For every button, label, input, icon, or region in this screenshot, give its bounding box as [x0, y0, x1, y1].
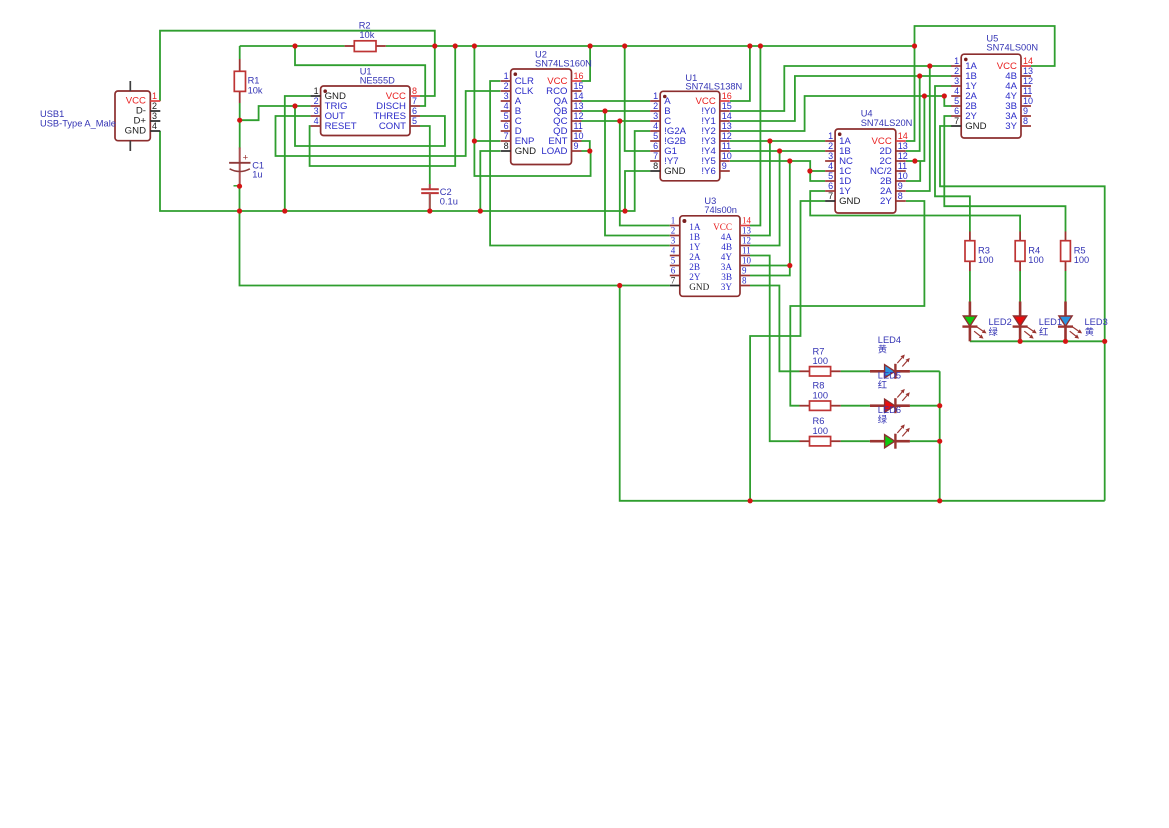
wire R7 to LED4	[841, 370, 870, 372]
svg-text:NE555D: NE555D	[360, 75, 395, 85]
svg-text:5: 5	[828, 171, 833, 181]
svg-text:1u: 1u	[252, 170, 262, 180]
svg-text:1: 1	[504, 71, 509, 81]
svg-text:3A: 3A	[721, 262, 733, 272]
svg-text:1B: 1B	[689, 232, 700, 242]
svg-text:GND: GND	[689, 282, 709, 292]
wire R3 to LED2	[969, 271, 971, 302]
svg-text:1: 1	[954, 56, 959, 66]
wire VCC: USB pin1 to top rail	[160, 31, 435, 101]
wire VCC rail left of R2	[240, 45, 345, 47]
svg-text:10: 10	[742, 256, 752, 266]
svg-text:3: 3	[828, 151, 833, 161]
wire VCC rail right of R2	[386, 45, 915, 47]
IC U1 SN74LS138N decoder	[650, 73, 742, 181]
svg-text:2: 2	[671, 226, 676, 236]
wire U4 2Y pin8 to R8	[790, 201, 924, 406]
svg-text:SN74LS160N: SN74LS160N	[535, 58, 592, 68]
wire CONT: 555 pin5 to C2	[420, 126, 430, 184]
wire !Y5: 138 pin10 to U4 1C/1D	[730, 161, 825, 181]
IC U3 74ls00n quad NAND	[670, 196, 752, 296]
IC U4 SN74LS20N dual NAND	[825, 109, 912, 214]
svg-text:2B: 2B	[689, 262, 700, 272]
svg-text:7: 7	[504, 131, 509, 141]
svg-text:6: 6	[671, 266, 676, 276]
svg-text:14: 14	[898, 131, 908, 141]
svg-text:LOAD: LOAD	[541, 146, 567, 157]
wire !Y1 branch to U4 2D pin13	[906, 76, 920, 151]
wire !Y2 branch to U4 2C pin12	[906, 96, 925, 161]
svg-text:1: 1	[828, 131, 833, 141]
svg-text:1: 1	[314, 86, 319, 96]
wire !Y5 spur to U4 1C pin4	[810, 170, 825, 172]
svg-text:R7: R7	[813, 346, 825, 356]
wire DISCH net: rail to 555 pin7	[295, 46, 425, 106]
svg-text:6: 6	[828, 181, 833, 191]
svg-text:4: 4	[152, 121, 157, 131]
svg-text:11: 11	[742, 246, 751, 256]
svg-text:红: 红	[878, 379, 887, 390]
svg-text:2: 2	[504, 81, 509, 91]
wire !Y4 branch to U3 4B pin12	[750, 151, 780, 246]
svg-text:1A: 1A	[689, 222, 701, 232]
wire U5 2Y pin6 to R5	[944, 116, 1065, 232]
svg-text:4B: 4B	[721, 242, 732, 252]
wire node to C1 top	[239, 120, 241, 148]
svg-text:3: 3	[314, 106, 319, 116]
wire !Y5 branch to U3 3A/3B	[750, 161, 790, 276]
svg-text:8: 8	[653, 161, 658, 171]
svg-text:绿: 绿	[989, 326, 999, 337]
svg-text:8: 8	[412, 86, 417, 96]
svg-text:1Y: 1Y	[689, 242, 701, 252]
svg-text:2Y: 2Y	[689, 272, 701, 282]
svg-text:9: 9	[898, 181, 903, 191]
svg-text:3: 3	[653, 111, 658, 121]
svg-text:8: 8	[504, 141, 509, 151]
svg-text:R6: R6	[813, 416, 825, 426]
wire R4 to LED1	[1019, 271, 1021, 302]
wire LED4 cathode to collector	[910, 370, 940, 372]
svg-text:LED4: LED4	[878, 335, 901, 345]
wire GND: 138 pin8 to rail	[625, 171, 650, 211]
svg-text:2: 2	[152, 101, 157, 111]
wire QC: U2 pin12 to 138 C	[582, 120, 651, 122]
svg-text:8: 8	[1023, 116, 1028, 126]
capacitor C2 0.1u	[421, 184, 458, 211]
svg-text:5: 5	[412, 116, 417, 126]
wire GND: middle LED cathode collector	[939, 371, 941, 501]
svg-text:LED5: LED5	[878, 370, 901, 380]
wire !Y0 branch to U4 2A pin9	[906, 66, 930, 191]
svg-text:4A: 4A	[721, 232, 733, 242]
LED LED5 red	[870, 389, 910, 413]
resistor R8 100	[800, 381, 841, 411]
svg-text:11: 11	[574, 121, 583, 131]
svg-text:3: 3	[152, 111, 157, 121]
svg-text:8: 8	[898, 191, 903, 201]
svg-text:11: 11	[722, 141, 731, 151]
svg-text:7: 7	[828, 191, 833, 201]
svg-text:2: 2	[954, 66, 959, 76]
svg-text:14: 14	[742, 216, 752, 226]
svg-text:14: 14	[1023, 56, 1033, 66]
svg-text:R4: R4	[1028, 246, 1040, 256]
wire VCC loop to U5 pin14	[915, 26, 1055, 66]
svg-text:黄: 黄	[1085, 326, 1094, 337]
svg-text:12: 12	[898, 151, 908, 161]
svg-text:4: 4	[314, 116, 319, 126]
svg-text:2: 2	[314, 96, 319, 106]
resistor R6 100	[800, 416, 841, 446]
svg-text:10: 10	[722, 151, 732, 161]
wire R6 to LED6	[841, 440, 870, 442]
svg-text:GND: GND	[515, 146, 536, 157]
LED LED1 red	[1013, 302, 1037, 342]
svg-text:12: 12	[742, 236, 751, 246]
LED LED6 green	[870, 424, 910, 448]
wire OUT: 555 pin3 to U2 CLK pin2	[276, 91, 501, 156]
svg-text:SN74LS138N: SN74LS138N	[685, 82, 742, 92]
svg-text:LED1: LED1	[1039, 317, 1062, 327]
svg-text:5: 5	[504, 111, 509, 121]
svg-text:13: 13	[1023, 66, 1033, 76]
svg-text:3: 3	[671, 236, 676, 246]
wire U2 ENT pin10 to LOAD node	[582, 141, 590, 151]
wire QB: U2 pin13 to 138 B	[582, 110, 651, 112]
svg-text:14: 14	[574, 91, 584, 101]
svg-text:100: 100	[1028, 255, 1044, 265]
svg-text:2A: 2A	[689, 252, 701, 262]
svg-text:13: 13	[574, 101, 584, 111]
wire GND: 555 pin1 to rail	[285, 96, 311, 211]
wire U3 4Y pin11 to R6	[750, 256, 800, 442]
LED LED2 green	[962, 302, 986, 342]
wire GND: U4 pin7 to bottom rail	[750, 201, 825, 501]
svg-text:4: 4	[504, 101, 509, 111]
wire VCC to 74LS138 G1 pin6	[625, 46, 651, 151]
IC U5 SN74LS00N quad NAND	[951, 33, 1038, 138]
svg-text:100: 100	[813, 356, 829, 366]
svg-text:R8: R8	[813, 381, 825, 391]
svg-text:7: 7	[954, 116, 959, 126]
svg-text:100: 100	[813, 390, 829, 400]
wire LED5 cathode to collector	[910, 405, 940, 407]
svg-text:2: 2	[828, 141, 833, 151]
connector USB1 USB-Type A_Male	[40, 81, 160, 151]
wire GND: C1 minus to rail	[239, 186, 241, 211]
svg-text:13: 13	[742, 226, 752, 236]
svg-text:LED6: LED6	[878, 405, 901, 415]
wire VCC to U4 pin14	[906, 46, 915, 141]
resistor R3 100	[965, 232, 994, 272]
svg-text:11: 11	[1023, 86, 1032, 96]
IC U2 SN74LS160N counter	[501, 50, 592, 165]
wire VCC to 555 RESET pin4	[310, 46, 456, 166]
LED LED3 blue	[1058, 302, 1082, 342]
svg-text:VCC: VCC	[713, 222, 732, 232]
svg-text:GND: GND	[664, 166, 685, 177]
svg-text:R1: R1	[248, 76, 260, 86]
svg-text:绿: 绿	[878, 413, 888, 424]
svg-text:红: 红	[1039, 326, 1048, 337]
capacitor C1 1u polarized	[229, 148, 264, 187]
wire QA: U2 pin14 to 138 A	[582, 100, 651, 102]
svg-text:10: 10	[1023, 96, 1033, 106]
svg-text:8: 8	[742, 276, 747, 286]
wire !Y3 branch to U3 4A pin13	[750, 141, 770, 236]
LED LED4 blue	[870, 355, 910, 379]
svg-text:3B: 3B	[721, 272, 732, 282]
resistor R2 10k	[345, 21, 386, 52]
svg-text:16: 16	[574, 71, 584, 81]
svg-text:4: 4	[954, 86, 959, 96]
svg-text:1: 1	[671, 216, 676, 226]
svg-text:100: 100	[1074, 255, 1090, 265]
wire U3 3A pin10 spur	[750, 265, 790, 267]
svg-text:GND: GND	[125, 125, 146, 136]
wire VCC branch ENP to LOAD	[474, 141, 590, 176]
svg-text:SN74LS20N: SN74LS20N	[861, 118, 913, 128]
svg-text:0.1u: 0.1u	[440, 196, 458, 206]
svg-text:黄: 黄	[878, 344, 887, 355]
wire CLR: U2 pin1 to U3 1Y pin3	[490, 81, 670, 246]
svg-text:11: 11	[898, 161, 907, 171]
wire U3 3Y pin8 to R7	[750, 286, 800, 372]
svg-text:4: 4	[653, 121, 658, 131]
svg-text:4: 4	[671, 246, 676, 256]
wire GND: USB pin4 to ground rail and 138 !G2A	[160, 131, 650, 211]
resistor R4 100	[1015, 232, 1044, 272]
svg-text:!Y6: !Y6	[701, 166, 715, 177]
svg-text:15: 15	[722, 101, 732, 111]
svg-text:10k: 10k	[248, 85, 263, 95]
resistor R5 100	[1061, 232, 1090, 272]
svg-text:2: 2	[653, 101, 658, 111]
wire R5 to LED3	[1065, 271, 1067, 302]
svg-text:5: 5	[671, 256, 676, 266]
svg-text:1: 1	[653, 91, 658, 101]
resistor R1 10k	[234, 59, 263, 103]
svg-text:SN74LS00N: SN74LS00N	[986, 42, 1038, 52]
svg-text:RESET: RESET	[325, 121, 357, 132]
svg-text:12: 12	[1023, 76, 1033, 86]
wire GND: right LED cathode rail	[970, 340, 1105, 342]
svg-text:LED2: LED2	[989, 317, 1012, 327]
svg-text:R3: R3	[978, 246, 990, 256]
wire THRES: 555 pin6 to TRIG	[295, 106, 445, 146]
wire U4 1Y pin6 to R4	[810, 191, 1020, 232]
wire LED6 cathode to collector	[910, 440, 940, 442]
wire QC branch to U3 1A	[620, 121, 670, 226]
wire GND: U5 pin7 to right vertical	[940, 126, 1105, 501]
wire !Y2 jog to U5 2B	[944, 96, 951, 106]
svg-text:10: 10	[898, 171, 908, 181]
svg-text:12: 12	[722, 131, 732, 141]
svg-text:+: +	[243, 153, 249, 164]
svg-text:15: 15	[574, 81, 584, 91]
wire VCC to U3 pin14	[750, 46, 760, 226]
wire QB branch to U3 1B	[605, 111, 670, 236]
svg-text:4Y: 4Y	[721, 252, 733, 262]
svg-text:3Y: 3Y	[1005, 121, 1017, 132]
wire U4 2B pin10 to 2C	[906, 161, 920, 181]
wire R8 to LED5	[841, 405, 870, 407]
wire VCC to 74LS138 pin16	[730, 46, 750, 101]
wire !Y1: 138 pin14 to U5 1B	[730, 76, 952, 121]
wire GND branch: rail down to U3 pin7 GND	[240, 211, 670, 286]
svg-text:CONT: CONT	[379, 121, 406, 132]
svg-text:9: 9	[742, 266, 747, 276]
svg-text:6: 6	[653, 141, 658, 151]
svg-text:10: 10	[574, 131, 584, 141]
wire VCC to R1 top	[239, 46, 241, 59]
svg-text:100: 100	[978, 255, 994, 265]
wire GND: U2 pin8 to rail	[480, 151, 500, 211]
wire VCC to U2 ENP pin7	[474, 46, 500, 141]
svg-text:R5: R5	[1074, 246, 1086, 256]
svg-text:GND: GND	[965, 121, 986, 132]
svg-text:2Y: 2Y	[880, 196, 892, 207]
svg-text:13: 13	[898, 141, 908, 151]
svg-text:100: 100	[813, 426, 829, 436]
wire !Y4: 138 pin11 to U4 1B	[730, 150, 825, 152]
svg-text:GND: GND	[839, 196, 860, 207]
wire !Y3: 138 pin12 to U4 1A	[730, 140, 825, 142]
junction dots	[292, 43, 297, 48]
IC U1 NE555D	[311, 66, 420, 135]
svg-text:5: 5	[653, 131, 658, 141]
svg-text:7: 7	[671, 276, 676, 286]
svg-text:6: 6	[504, 121, 509, 131]
wire C2 bottom to rail	[429, 194, 431, 211]
wire !Y0: 138 pin15 to U5 1A	[730, 66, 952, 111]
resistor R7 100	[800, 346, 841, 376]
wire !Y2: 138 pin13 to U5 2A	[730, 96, 944, 131]
svg-text:7: 7	[412, 96, 417, 106]
svg-text:13: 13	[722, 121, 732, 131]
wire VCC to U2 pin16	[582, 46, 591, 81]
svg-text:1: 1	[152, 91, 157, 101]
svg-text:4: 4	[828, 161, 833, 171]
wire R1 bottom to node	[239, 103, 241, 120]
svg-text:14: 14	[722, 111, 732, 121]
svg-text:3: 3	[504, 91, 509, 101]
svg-text:3: 3	[954, 76, 959, 86]
svg-text:LED3: LED3	[1085, 317, 1108, 327]
wire GND: U3 GND node down to bottom rail	[620, 286, 1105, 501]
wire U5 1Y pin3 to R3	[935, 86, 970, 232]
svg-text:USB1: USB1	[40, 109, 64, 119]
svg-text:9: 9	[1023, 106, 1028, 116]
svg-text:12: 12	[574, 111, 584, 121]
svg-text:7: 7	[653, 151, 658, 161]
svg-text:6: 6	[954, 106, 959, 116]
svg-text:9: 9	[574, 141, 579, 151]
svg-text:10k: 10k	[359, 30, 374, 40]
svg-text:16: 16	[722, 91, 732, 101]
svg-text:3Y: 3Y	[721, 282, 733, 292]
svg-text:USB-Type A_Male: USB-Type A_Male	[40, 119, 116, 129]
svg-text:74ls00n: 74ls00n	[704, 205, 737, 215]
svg-text:6: 6	[412, 106, 417, 116]
svg-text:9: 9	[722, 161, 727, 171]
wire VCC to 555 pin8	[420, 46, 435, 96]
wire TRIG node: 555 pin2 to R1/C1 junction	[240, 106, 311, 120]
svg-text:5: 5	[954, 96, 959, 106]
